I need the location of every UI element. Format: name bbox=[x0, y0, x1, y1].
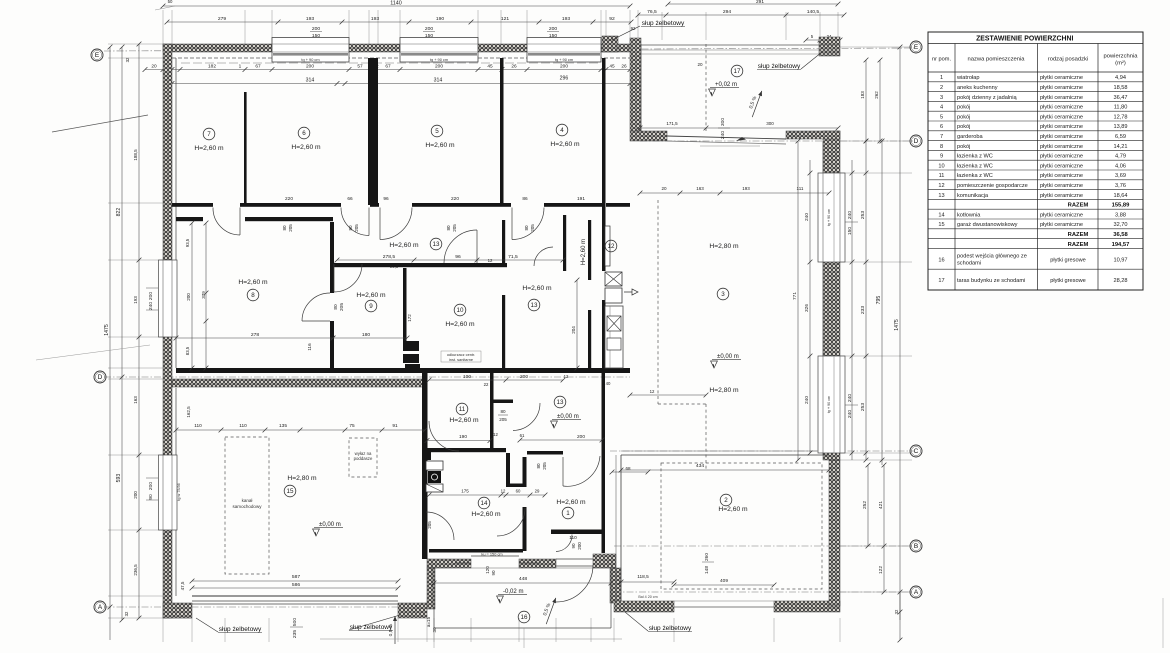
svg-text:nazwa pomieszczenia: nazwa pomieszczenia bbox=[967, 57, 1025, 63]
svg-text:205: 205 bbox=[499, 417, 507, 422]
svg-text:20: 20 bbox=[661, 186, 667, 191]
svg-text:83,5: 83,5 bbox=[185, 346, 190, 355]
svg-text:262: 262 bbox=[874, 91, 879, 99]
svg-text:3,69: 3,69 bbox=[1115, 173, 1126, 179]
svg-text:samochodowy: samochodowy bbox=[233, 504, 263, 509]
svg-text:240: 240 bbox=[804, 396, 810, 404]
svg-text:16: 16 bbox=[938, 257, 944, 263]
svg-text:płytki gresowe: płytki gresowe bbox=[1050, 278, 1086, 284]
svg-text:płytki ceramiczne: płytki ceramiczne bbox=[1040, 154, 1083, 160]
svg-text:194,57: 194,57 bbox=[1112, 242, 1130, 248]
svg-text:-0,02 m: -0,02 m bbox=[503, 589, 524, 595]
svg-text:47,5: 47,5 bbox=[180, 581, 185, 590]
svg-text:15: 15 bbox=[287, 488, 294, 495]
svg-text:płytki ceramiczne: płytki ceramiczne bbox=[1040, 124, 1083, 130]
svg-text:H=2,60 m: H=2,60 m bbox=[471, 511, 501, 518]
svg-text:18,64: 18,64 bbox=[1113, 193, 1127, 199]
svg-text:300: 300 bbox=[720, 118, 726, 127]
svg-text:H=2,60 m: H=2,60 m bbox=[389, 242, 419, 249]
svg-text:80: 80 bbox=[348, 225, 353, 231]
svg-text:20: 20 bbox=[151, 63, 157, 69]
svg-text:13: 13 bbox=[938, 193, 944, 199]
svg-text:4: 4 bbox=[940, 105, 943, 111]
svg-text:kanał: kanał bbox=[242, 498, 253, 503]
svg-text:193: 193 bbox=[133, 296, 138, 304]
svg-text:H=2,60 m: H=2,60 m bbox=[291, 144, 321, 151]
svg-text:22: 22 bbox=[484, 382, 489, 387]
svg-text:kotłownia: kotłownia bbox=[957, 212, 981, 218]
svg-text:pomieszczenie gospodarcze: pomieszczenie gospodarcze bbox=[957, 183, 1028, 189]
svg-text:H=2,60 m: H=2,60 m bbox=[581, 239, 587, 265]
svg-text:ZESTAWIENIE POWIERZCHNI: ZESTAWIENIE POWIERZCHNI bbox=[976, 35, 1073, 42]
svg-text:wiatrołap: wiatrołap bbox=[956, 75, 979, 81]
svg-text:205: 205 bbox=[452, 224, 457, 232]
svg-text:80: 80 bbox=[446, 225, 451, 231]
svg-text:1475: 1475 bbox=[104, 324, 110, 336]
svg-text:słup żelbetowy: słup żelbetowy bbox=[758, 63, 801, 70]
svg-text:H=2,80 m: H=2,80 m bbox=[709, 243, 739, 250]
svg-text:10,97: 10,97 bbox=[1113, 257, 1127, 263]
svg-text:60: 60 bbox=[516, 489, 521, 494]
svg-text:148: 148 bbox=[704, 566, 710, 574]
svg-text:schodami: schodami bbox=[957, 260, 981, 266]
svg-text:garderoba: garderoba bbox=[957, 134, 983, 140]
svg-text:H=2,60 m: H=2,60 m bbox=[238, 279, 268, 286]
svg-text:99,8: 99,8 bbox=[390, 264, 399, 269]
svg-text:tg + 90 cm: tg + 90 cm bbox=[827, 396, 831, 413]
svg-text:15: 15 bbox=[938, 222, 944, 228]
svg-text:593: 593 bbox=[116, 474, 122, 483]
svg-text:26: 26 bbox=[511, 63, 517, 69]
svg-text:260: 260 bbox=[704, 553, 710, 561]
svg-text:80: 80 bbox=[500, 409, 506, 414]
svg-text:586: 586 bbox=[292, 582, 301, 588]
svg-text:193: 193 bbox=[742, 186, 750, 191]
svg-text:28,28: 28,28 bbox=[1113, 278, 1127, 284]
svg-text:E: E bbox=[95, 52, 100, 59]
svg-text:1: 1 bbox=[239, 63, 242, 69]
svg-text:200: 200 bbox=[560, 63, 568, 69]
svg-text:26: 26 bbox=[621, 63, 627, 69]
svg-text:A: A bbox=[98, 604, 103, 611]
svg-text:240: 240 bbox=[847, 211, 853, 220]
svg-text:11,80: 11,80 bbox=[1114, 105, 1128, 111]
svg-text:pokój dzienny z jadalnią: pokój dzienny z jadalnią bbox=[957, 95, 1017, 101]
svg-text:RAZEM: RAZEM bbox=[1068, 232, 1089, 238]
svg-text:B: B bbox=[914, 543, 918, 550]
svg-text:96: 96 bbox=[383, 196, 389, 202]
svg-text:100: 100 bbox=[463, 374, 471, 380]
svg-text:12: 12 bbox=[488, 258, 493, 263]
svg-text:200: 200 bbox=[520, 374, 528, 380]
svg-text:1475: 1475 bbox=[894, 319, 900, 331]
svg-text:(m²): (m²) bbox=[1115, 61, 1126, 67]
svg-text:±0,00 m: ±0,00 m bbox=[557, 414, 579, 420]
svg-text:płytki ceramiczne: płytki ceramiczne bbox=[1040, 163, 1083, 169]
svg-text:H=2,60 m: H=2,60 m bbox=[425, 142, 455, 149]
svg-text:80: 80 bbox=[536, 463, 541, 469]
svg-text:13: 13 bbox=[531, 302, 538, 309]
svg-text:12: 12 bbox=[938, 183, 944, 189]
svg-text:162,5: 162,5 bbox=[186, 406, 191, 418]
svg-text:pokój: pokój bbox=[957, 114, 970, 120]
svg-text:200: 200 bbox=[577, 434, 585, 440]
svg-text:tg + 90 cm: tg + 90 cm bbox=[555, 57, 573, 62]
svg-text:6: 6 bbox=[940, 124, 943, 130]
svg-text:171,5: 171,5 bbox=[666, 121, 678, 126]
svg-text:2: 2 bbox=[724, 497, 728, 504]
svg-text:180: 180 bbox=[362, 332, 371, 338]
svg-text:11: 11 bbox=[939, 173, 945, 179]
svg-text:110: 110 bbox=[569, 535, 577, 541]
svg-text:H=2,80 m: H=2,80 m bbox=[709, 387, 739, 394]
svg-text:H=2,60 m: H=2,60 m bbox=[194, 145, 224, 152]
svg-text:32: 32 bbox=[125, 57, 130, 62]
svg-text:200: 200 bbox=[133, 491, 138, 499]
svg-text:13,89: 13,89 bbox=[1113, 124, 1127, 130]
svg-text:płytki ceramiczne: płytki ceramiczne bbox=[1040, 114, 1083, 120]
svg-text:294: 294 bbox=[723, 9, 732, 15]
svg-text:32,70: 32,70 bbox=[1113, 222, 1127, 228]
svg-text:135: 135 bbox=[279, 423, 287, 429]
svg-text:płytki gresowe: płytki gresowe bbox=[1050, 257, 1086, 263]
svg-text:podest wejścia głównego ze: podest wejścia głównego ze bbox=[957, 253, 1027, 259]
svg-text:253: 253 bbox=[860, 211, 866, 220]
svg-text:powierzchnia: powierzchnia bbox=[1103, 54, 1138, 60]
svg-text:4,79: 4,79 bbox=[1115, 154, 1126, 160]
svg-text:D: D bbox=[98, 374, 103, 381]
svg-text:płytki ceramiczne: płytki ceramiczne bbox=[1040, 212, 1083, 218]
svg-text:175: 175 bbox=[461, 489, 469, 494]
svg-text:płytki ceramiczne: płytki ceramiczne bbox=[1040, 95, 1083, 101]
svg-text:379: 379 bbox=[201, 291, 206, 299]
svg-text:9: 9 bbox=[369, 303, 373, 310]
svg-text:96: 96 bbox=[455, 254, 461, 260]
svg-text:150: 150 bbox=[847, 227, 853, 236]
svg-text:90: 90 bbox=[148, 494, 154, 500]
svg-text:C: C bbox=[914, 448, 919, 455]
svg-text:200: 200 bbox=[577, 542, 582, 550]
svg-text:60: 60 bbox=[421, 522, 426, 528]
svg-text:taras budynku ze schodami: taras budynku ze schodami bbox=[957, 278, 1025, 284]
svg-text:10: 10 bbox=[457, 307, 464, 314]
svg-text:500: 500 bbox=[292, 618, 298, 627]
svg-text:122: 122 bbox=[878, 566, 884, 574]
svg-text:183: 183 bbox=[860, 91, 865, 99]
svg-text:240: 240 bbox=[804, 213, 810, 221]
svg-text:278,5: 278,5 bbox=[383, 254, 396, 260]
svg-text:61: 61 bbox=[520, 433, 525, 438]
svg-text:płytki ceramiczne: płytki ceramiczne bbox=[1040, 134, 1083, 140]
svg-text:4: 4 bbox=[560, 127, 564, 134]
svg-text:421: 421 bbox=[878, 501, 884, 509]
svg-text:29: 29 bbox=[535, 489, 540, 494]
svg-text:278: 278 bbox=[251, 332, 260, 338]
svg-text:240: 240 bbox=[847, 410, 853, 419]
svg-text:90: 90 bbox=[491, 570, 496, 576]
svg-text:155,89: 155,89 bbox=[1112, 203, 1131, 209]
svg-text:14: 14 bbox=[938, 212, 944, 218]
svg-text:3,88: 3,88 bbox=[1115, 212, 1126, 218]
svg-text:200: 200 bbox=[312, 26, 321, 32]
svg-text:łazienka z WC: łazienka z WC bbox=[957, 173, 993, 179]
svg-text:110: 110 bbox=[194, 423, 202, 429]
svg-text:±0,00 m: ±0,00 m bbox=[319, 522, 341, 528]
svg-text:płytki ceramiczne: płytki ceramiczne bbox=[1040, 105, 1083, 111]
svg-text:771: 771 bbox=[792, 292, 798, 300]
svg-text:200: 200 bbox=[306, 63, 314, 69]
svg-text:pokój: pokój bbox=[957, 144, 970, 150]
svg-text:E: E bbox=[914, 44, 919, 51]
svg-text:17: 17 bbox=[734, 68, 741, 75]
svg-text:poddasze: poddasze bbox=[354, 456, 373, 461]
svg-text:200: 200 bbox=[549, 26, 558, 32]
svg-text:H=2,60 m: H=2,60 m bbox=[718, 506, 748, 513]
svg-text:314: 314 bbox=[434, 77, 443, 83]
svg-text:80: 80 bbox=[524, 225, 529, 231]
svg-text:8: 8 bbox=[940, 144, 943, 150]
svg-text:RAZEM: RAZEM bbox=[1068, 242, 1089, 248]
svg-text:204: 204 bbox=[571, 326, 576, 334]
svg-text:252: 252 bbox=[862, 501, 868, 509]
svg-text:71,5: 71,5 bbox=[508, 254, 518, 260]
svg-text:3: 3 bbox=[721, 291, 725, 298]
svg-text:200: 200 bbox=[148, 482, 154, 491]
svg-text:448: 448 bbox=[519, 576, 528, 582]
svg-text:słup żelbetowy: słup żelbetowy bbox=[649, 625, 692, 632]
svg-text:3,76: 3,76 bbox=[1115, 183, 1126, 189]
svg-text:10: 10 bbox=[938, 163, 944, 169]
svg-text:a=15: a=15 bbox=[426, 616, 431, 627]
svg-text:6: 6 bbox=[302, 130, 306, 137]
svg-text:587: 587 bbox=[292, 574, 301, 580]
svg-text:12: 12 bbox=[501, 489, 506, 494]
svg-text:płytki ceramiczne: płytki ceramiczne bbox=[1040, 173, 1083, 179]
svg-text:50: 50 bbox=[168, 0, 173, 4]
svg-text:13: 13 bbox=[557, 399, 564, 406]
svg-text:H=2,60 m: H=2,60 m bbox=[522, 285, 552, 292]
svg-text:434: 434 bbox=[696, 463, 705, 469]
svg-text:205: 205 bbox=[542, 462, 547, 470]
svg-text:220: 220 bbox=[285, 196, 293, 202]
svg-text:91: 91 bbox=[392, 423, 398, 429]
svg-text:14: 14 bbox=[481, 500, 488, 507]
svg-text:płytki ceramiczne: płytki ceramiczne bbox=[1040, 144, 1083, 150]
svg-text:słup żelbetowy: słup żelbetowy bbox=[219, 626, 262, 633]
svg-text:1140: 1140 bbox=[390, 1, 402, 7]
svg-text:3: 3 bbox=[940, 95, 943, 101]
svg-text:193: 193 bbox=[371, 16, 380, 22]
svg-text:12: 12 bbox=[608, 243, 615, 250]
svg-text:120: 120 bbox=[485, 566, 490, 574]
svg-text:8: 8 bbox=[251, 292, 255, 299]
svg-text:6,59: 6,59 bbox=[1115, 134, 1126, 140]
svg-text:40: 40 bbox=[606, 381, 611, 386]
svg-text:92: 92 bbox=[609, 16, 615, 22]
svg-text:słup żelbetowy: słup żelbetowy bbox=[350, 624, 393, 631]
svg-text:233: 233 bbox=[860, 306, 866, 315]
svg-text:182: 182 bbox=[208, 63, 216, 69]
svg-text:300: 300 bbox=[766, 121, 774, 126]
svg-text:1: 1 bbox=[940, 75, 943, 81]
svg-text:30: 30 bbox=[432, 627, 437, 633]
svg-text:12: 12 bbox=[650, 389, 655, 394]
svg-text:205: 205 bbox=[530, 224, 535, 232]
svg-text:14,21: 14,21 bbox=[1113, 144, 1127, 150]
svg-text:±0,00 m: ±0,00 m bbox=[717, 354, 739, 360]
svg-text:66: 66 bbox=[347, 196, 353, 202]
svg-text:RAZEM: RAZEM bbox=[1068, 203, 1089, 209]
svg-text:A: A bbox=[914, 589, 919, 596]
svg-text:45: 45 bbox=[609, 63, 615, 69]
svg-text:garaż dwustanowiskowy: garaż dwustanowiskowy bbox=[957, 222, 1018, 228]
svg-text:240: 240 bbox=[720, 131, 726, 140]
svg-text:296: 296 bbox=[560, 75, 569, 81]
svg-text:200: 200 bbox=[186, 293, 191, 301]
svg-text:36,58: 36,58 bbox=[1113, 232, 1128, 238]
svg-text:236,5: 236,5 bbox=[133, 564, 138, 576]
svg-text:4,06: 4,06 bbox=[1115, 163, 1126, 169]
svg-text:200: 200 bbox=[425, 26, 434, 32]
svg-text:H=2,60 m: H=2,60 m bbox=[356, 292, 386, 299]
svg-text:H=2,80 m: H=2,80 m bbox=[287, 475, 317, 482]
svg-text:11: 11 bbox=[459, 406, 466, 413]
svg-text:12: 12 bbox=[493, 432, 498, 437]
svg-text:121: 121 bbox=[501, 16, 510, 22]
svg-text:H=2,60 m: H=2,60 m bbox=[550, 141, 580, 148]
svg-text:łazienka z WC: łazienka z WC bbox=[957, 163, 993, 169]
svg-text:18,58: 18,58 bbox=[1113, 85, 1127, 91]
svg-text:205: 205 bbox=[339, 303, 345, 311]
svg-text:płytki ceramiczne: płytki ceramiczne bbox=[1040, 222, 1083, 228]
svg-text:2: 2 bbox=[940, 85, 943, 91]
svg-text:H=2,60 m: H=2,60 m bbox=[449, 417, 479, 424]
svg-text:172: 172 bbox=[407, 314, 412, 322]
svg-text:116: 116 bbox=[307, 343, 312, 351]
svg-text:32: 32 bbox=[124, 611, 129, 616]
svg-text:4,94: 4,94 bbox=[1115, 75, 1126, 81]
svg-text:193: 193 bbox=[562, 16, 571, 22]
svg-text:140,5: 140,5 bbox=[807, 9, 820, 15]
svg-text:191: 191 bbox=[577, 196, 585, 202]
svg-text:płytki ceramiczne: płytki ceramiczne bbox=[1040, 193, 1083, 199]
svg-text:200: 200 bbox=[148, 292, 154, 301]
svg-text:7: 7 bbox=[940, 134, 943, 140]
svg-text:płytki ceramiczne: płytki ceramiczne bbox=[1040, 183, 1083, 189]
svg-text:200: 200 bbox=[435, 63, 443, 69]
svg-text:80: 80 bbox=[282, 225, 287, 231]
svg-text:20: 20 bbox=[697, 62, 703, 67]
svg-text:tg w 75/36: tg w 75/36 bbox=[177, 483, 181, 500]
svg-text:76,5: 76,5 bbox=[647, 9, 657, 15]
svg-text:7: 7 bbox=[207, 131, 211, 138]
svg-text:aneks kuchenny: aneks kuchenny bbox=[957, 85, 998, 91]
svg-text:45: 45 bbox=[487, 63, 493, 69]
svg-text:90: 90 bbox=[571, 543, 576, 549]
svg-text:80: 80 bbox=[333, 304, 339, 310]
svg-text:5: 5 bbox=[435, 128, 439, 135]
svg-text:220: 220 bbox=[451, 196, 459, 202]
svg-text:93,5: 93,5 bbox=[185, 238, 190, 247]
svg-text:Bal 4 20 cm: Bal 4 20 cm bbox=[638, 595, 657, 599]
svg-text:inst. sanitarne: inst. sanitarne bbox=[449, 357, 473, 362]
svg-text:279: 279 bbox=[218, 16, 227, 22]
svg-text:36,47: 36,47 bbox=[1113, 95, 1127, 101]
svg-text:tg + 90 cm: tg + 90 cm bbox=[430, 57, 448, 62]
svg-text:1: 1 bbox=[566, 510, 570, 517]
svg-text:57: 57 bbox=[357, 63, 363, 69]
svg-text:słup żelbetowy: słup żelbetowy bbox=[642, 20, 685, 27]
svg-text:13: 13 bbox=[433, 241, 440, 248]
svg-text:H=2,60 m: H=2,60 m bbox=[445, 321, 475, 328]
svg-text:12,78: 12,78 bbox=[1113, 114, 1127, 120]
svg-text:326: 326 bbox=[804, 304, 810, 312]
svg-text:822: 822 bbox=[116, 208, 122, 217]
svg-text:190: 190 bbox=[436, 16, 445, 22]
svg-text:235: 235 bbox=[292, 630, 298, 639]
svg-text:190: 190 bbox=[459, 434, 467, 440]
svg-text:tg + 90 cm: tg + 90 cm bbox=[301, 57, 319, 62]
svg-text:118,5: 118,5 bbox=[637, 574, 649, 580]
svg-text:9: 9 bbox=[940, 154, 943, 160]
svg-text:240: 240 bbox=[148, 302, 154, 311]
svg-text:314: 314 bbox=[306, 77, 315, 83]
svg-text:409: 409 bbox=[720, 578, 728, 584]
svg-text:17: 17 bbox=[938, 278, 944, 284]
svg-text:komunikacja: komunikacja bbox=[957, 193, 989, 199]
svg-text:67: 67 bbox=[255, 63, 261, 69]
svg-text:nr pom.: nr pom. bbox=[932, 57, 951, 63]
svg-text:rodzaj posadzki: rodzaj posadzki bbox=[1048, 57, 1089, 63]
svg-text:193: 193 bbox=[306, 16, 315, 22]
svg-text:86: 86 bbox=[522, 196, 528, 202]
svg-text:205: 205 bbox=[288, 224, 293, 232]
svg-text:75: 75 bbox=[349, 423, 355, 429]
svg-text:110: 110 bbox=[239, 423, 247, 429]
svg-text:płytki ceramiczne: płytki ceramiczne bbox=[1040, 75, 1083, 81]
svg-text:111: 111 bbox=[797, 186, 804, 191]
svg-text:67: 67 bbox=[385, 63, 391, 69]
svg-text:205: 205 bbox=[354, 224, 359, 232]
svg-text:płytki ceramiczne: płytki ceramiczne bbox=[1040, 85, 1083, 91]
svg-text:D: D bbox=[914, 138, 919, 145]
svg-text:pokój: pokój bbox=[957, 105, 970, 111]
svg-text:+0,02 m: +0,02 m bbox=[715, 82, 737, 88]
svg-text:291: 291 bbox=[756, 0, 764, 5]
svg-text:163: 163 bbox=[133, 396, 138, 404]
svg-text:pokój: pokój bbox=[957, 124, 970, 130]
svg-text:tg + 90 cm: tg + 90 cm bbox=[827, 209, 831, 226]
svg-text:240: 240 bbox=[847, 394, 853, 403]
svg-text:łazienka z WC: łazienka z WC bbox=[957, 154, 993, 160]
svg-text:16: 16 bbox=[521, 614, 528, 621]
svg-text:H=2,60 m: H=2,60 m bbox=[556, 499, 586, 506]
svg-text:5: 5 bbox=[940, 114, 943, 120]
svg-text:163: 163 bbox=[696, 186, 704, 191]
svg-text:253: 253 bbox=[860, 403, 866, 412]
svg-text:205: 205 bbox=[427, 521, 432, 529]
svg-text:188,5: 188,5 bbox=[133, 149, 138, 161]
svg-text:795: 795 bbox=[876, 296, 882, 305]
